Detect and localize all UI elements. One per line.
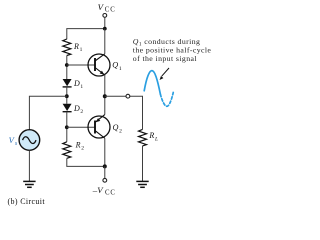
wire Q1 emitter to output node (104, 75, 106, 96)
diode D1 (63, 79, 84, 90)
junction -VCC node (103, 164, 107, 168)
svg-text:D: D (73, 79, 80, 88)
svg-text:–V: –V (92, 185, 104, 195)
wire Q2 collector to -VCC junction (104, 138, 106, 166)
svg-text:2: 2 (81, 146, 84, 152)
wire R1 bottom to node A (66, 56, 68, 80)
svg-text:L: L (154, 136, 158, 142)
node -VCC label (92, 185, 116, 197)
resistor R1 (63, 39, 83, 56)
junction output node (103, 94, 107, 98)
wire Q2 emitter to output node (104, 96, 106, 114)
svg-text:2: 2 (119, 129, 122, 135)
svg-text:Q: Q (112, 61, 118, 70)
resistor R2 (63, 140, 84, 158)
terminal VCC (103, 14, 107, 18)
annotation arrow (160, 68, 169, 80)
svg-text:R: R (75, 140, 81, 149)
node VCC label (98, 2, 116, 14)
svg-text:s: s (15, 141, 18, 147)
wire Vs to ground (28, 150, 30, 181)
svg-text:Q: Q (113, 123, 119, 132)
svg-text:CC: CC (105, 6, 116, 13)
annotation text (133, 37, 212, 63)
svg-text:D: D (73, 104, 80, 113)
wire to -VCC terminal (104, 166, 106, 178)
ground (load) (136, 181, 148, 187)
wire D2 to node C (66, 112, 68, 142)
wire Q1 base (67, 64, 95, 66)
diode D2 (63, 104, 84, 115)
wire R2 bottom to -VCC junction (67, 158, 105, 166)
wire VCC terminal to top junction (104, 17, 106, 28)
svg-text:(b) Circuit: (b) Circuit (8, 197, 46, 206)
junction node B (between diodes, to source) (65, 94, 69, 98)
waveform input signal (144, 71, 173, 107)
svg-text:1: 1 (80, 84, 83, 90)
svg-text:CC: CC (105, 189, 116, 196)
transistor Q1 (88, 54, 122, 76)
wire RL to ground (142, 146, 144, 182)
junction top node (103, 27, 107, 31)
terminal -VCC (103, 178, 107, 182)
junction node C (D2/R2/Q2 base) (65, 125, 69, 129)
junction node A (R1/D1/Q1 base) (65, 63, 69, 67)
svg-text:of the input signal: of the input signal (133, 54, 198, 63)
svg-text:V: V (98, 2, 105, 12)
svg-text:2: 2 (80, 109, 83, 115)
svg-text:1: 1 (119, 66, 122, 72)
resistor RL (139, 129, 159, 146)
svg-text:R: R (73, 42, 79, 51)
wire Q1 collector (104, 29, 106, 54)
wire node B to source branch (29, 96, 66, 129)
terminal output (126, 94, 130, 98)
ground (source) (23, 181, 35, 187)
svg-text:1: 1 (80, 47, 83, 53)
source Vs (9, 130, 40, 151)
wire Q2 base (67, 126, 95, 128)
svg-text:R: R (148, 131, 154, 140)
transistor Q2 (88, 115, 122, 139)
wire output horizontal (105, 96, 143, 129)
wire top horizontal (67, 29, 105, 40)
wire D1 to D2 (66, 87, 68, 104)
